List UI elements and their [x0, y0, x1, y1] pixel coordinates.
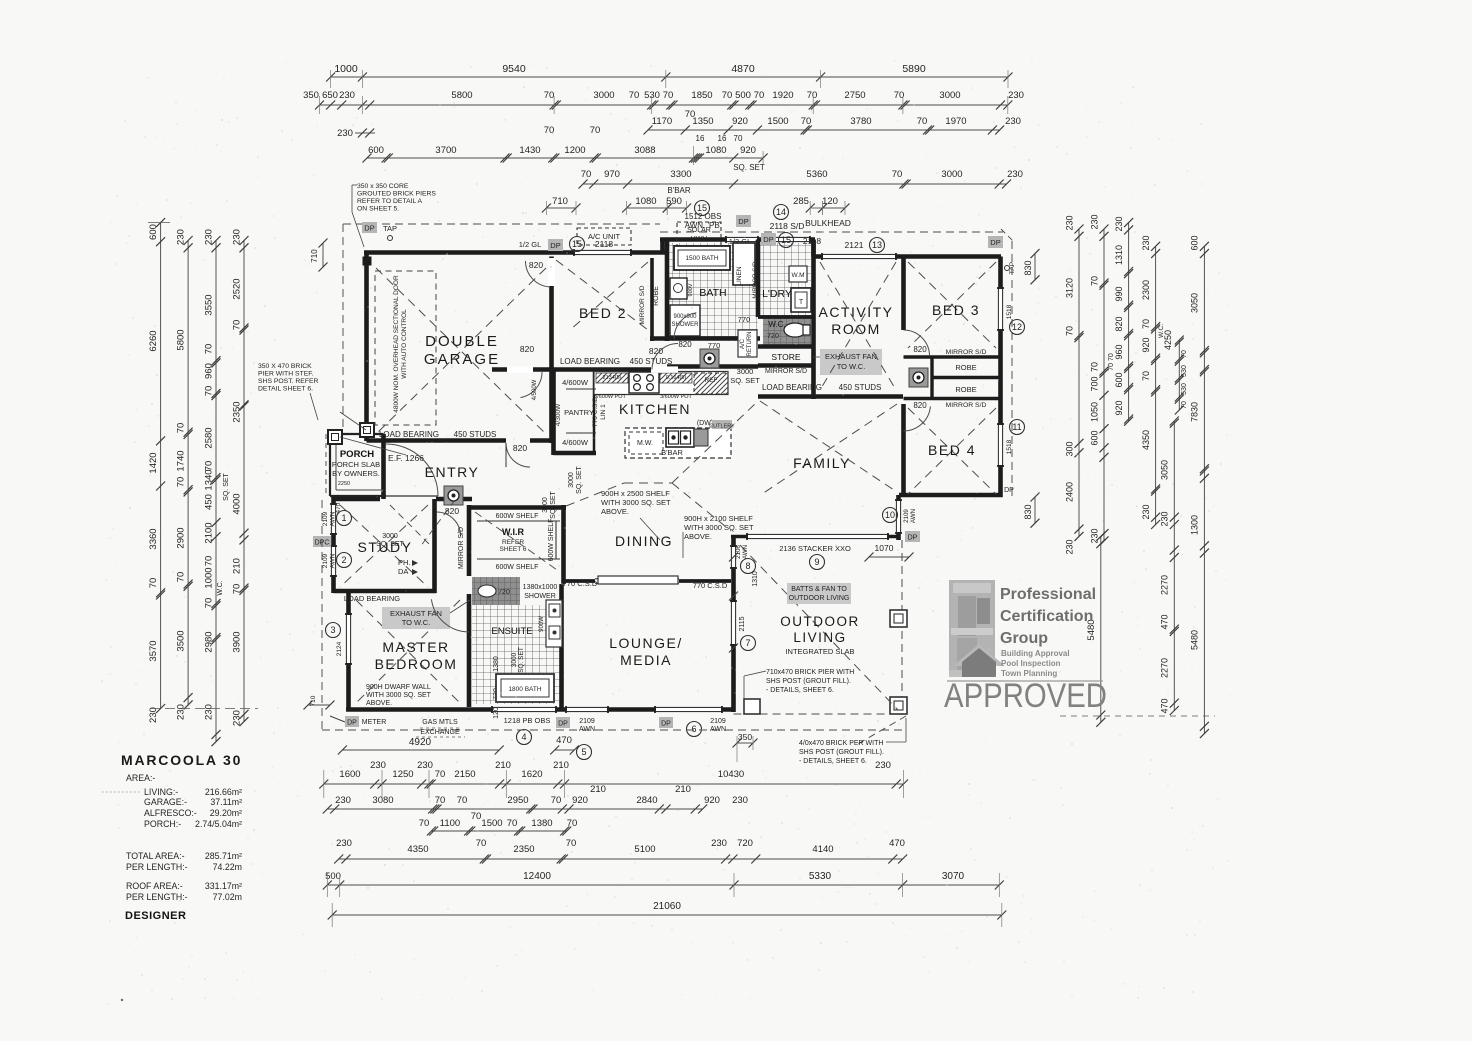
svg-text:230: 230 [204, 704, 215, 720]
svg-text:230: 230 [417, 760, 433, 771]
svg-text:230: 230 [1089, 528, 1099, 543]
wall: bottom exterior master-lounge [346, 707, 734, 712]
stray dot bottom left [121, 999, 123, 1001]
svg-text:SHEET 6: SHEET 6 [500, 546, 527, 553]
svg-text:70: 70 [754, 90, 765, 101]
svg-text:T: T [799, 299, 804, 306]
svg-text:2121: 2121 [845, 240, 864, 250]
wall: master bedroom left exterior [346, 591, 351, 710]
svg-text:230: 230 [1089, 214, 1099, 229]
svg-text:MIRROR S/D: MIRROR S/D [458, 527, 465, 569]
AC return box [738, 330, 757, 357]
svg-text:- DETAILS, SHEET 6.: - DETAILS, SHEET 6. [799, 758, 867, 765]
window family right 2109 [895, 500, 902, 533]
callout circle 5 bottom [577, 745, 592, 760]
svg-text:5480: 5480 [1190, 630, 1200, 650]
ensuite shower head [478, 585, 496, 597]
svg-text:70: 70 [1181, 401, 1188, 409]
svg-text:GROUTED BRICK PIERS: GROUTED BRICK PIERS [357, 191, 436, 198]
svg-text:830: 830 [1023, 504, 1033, 519]
svg-text:2270: 2270 [1160, 575, 1170, 595]
svg-text:230: 230 [875, 760, 891, 771]
svg-text:1512 OBS: 1512 OBS [685, 212, 722, 221]
svg-text:3000: 3000 [941, 169, 962, 180]
svg-text:1100: 1100 [440, 818, 460, 829]
svg-text:900H DWARF WALL: 900H DWARF WALL [366, 684, 431, 691]
svg-text:DETAIL SHEET 6.: DETAIL SHEET 6. [258, 386, 313, 393]
scan noise speckles [101, 60, 1230, 1005]
svg-text:1250: 1250 [392, 769, 413, 780]
svg-text:6: 6 [691, 724, 696, 734]
washing machine [789, 266, 807, 282]
right dim col 4b (530/530/70 cluster) [1178, 340, 1180, 410]
right dim col 3 (1310/990/820/960/920) [1128, 223, 1130, 422]
wall: top exterior garage-bed2 [364, 250, 667, 255]
svg-text:970: 970 [604, 169, 620, 180]
svg-text:230: 230 [148, 707, 159, 723]
svg-text:2115: 2115 [739, 616, 746, 631]
svg-text:DP: DP [908, 535, 918, 542]
right side bottom: 830 dim [1034, 497, 1036, 523]
svg-text:230: 230 [1141, 235, 1151, 250]
svg-text:4/0x470 BRICK PER WITH: 4/0x470 BRICK PER WITH [799, 740, 883, 747]
svg-text:1518: 1518 [1006, 439, 1013, 454]
svg-text:600: 600 [1089, 430, 1099, 445]
kitchen bench top [594, 372, 728, 395]
svg-text:W.M: W.M [792, 272, 805, 279]
svg-text:900H x 2100 SHELF: 900H x 2100 SHELF [684, 514, 753, 523]
svg-text:3550: 3550 [204, 294, 215, 315]
kitchen fridge space [694, 373, 728, 394]
svg-text:STORE: STORE [771, 352, 800, 362]
svg-text:230: 230 [232, 710, 243, 726]
island sink [666, 428, 694, 447]
svg-text:470: 470 [889, 838, 905, 849]
exhaust fan to wc master [382, 607, 450, 629]
bottom-left roof eave dashes [321, 500, 323, 730]
svg-text:BATH: BATH [699, 287, 726, 299]
dimension row top-2 [320, 104, 1008, 106]
svg-text:12: 12 [1012, 322, 1022, 332]
svg-text:710: 710 [310, 249, 319, 263]
bed2 roof dashes [556, 260, 648, 330]
svg-text:3780: 3780 [850, 116, 871, 127]
svg-text:ROBE: ROBE [653, 286, 660, 306]
bottom dim row C [327, 808, 702, 810]
wall: garage right / bed2 left [549, 257, 554, 444]
svg-text:450 STUDS: 450 STUDS [630, 357, 673, 366]
svg-text:210: 210 [590, 784, 606, 795]
dimension row top-5 [583, 183, 1007, 185]
svg-text:2840: 2840 [636, 795, 657, 806]
wall: entry-study return [436, 497, 472, 502]
svg-text:LIVING: LIVING [793, 630, 846, 645]
family roof dashes [760, 401, 897, 492]
svg-text:2900: 2900 [176, 527, 187, 548]
svg-text:SHOWER: SHOWER [524, 593, 556, 600]
svg-text:LOUNGE/: LOUNGE/ [609, 635, 683, 651]
svg-text:PORCH: PORCH [340, 449, 374, 460]
window study left 2109 upper [330, 504, 337, 534]
svg-text:2109: 2109 [322, 553, 329, 568]
svg-text:70: 70 [1141, 371, 1151, 381]
dimension row top-3 [648, 129, 1000, 131]
svg-text:3000: 3000 [542, 497, 549, 513]
svg-text:SQ. SET: SQ. SET [733, 163, 765, 172]
ensuite floor tiles [472, 605, 564, 704]
svg-text:230: 230 [1160, 511, 1170, 526]
roof eave dashes top [343, 223, 660, 225]
wall: wc bottom / store top [758, 344, 814, 349]
svg-text:1420: 1420 [148, 452, 159, 473]
window top activity 2121 [822, 253, 896, 260]
svg-text:230: 230 [732, 795, 748, 806]
svg-text:5100: 5100 [634, 844, 655, 855]
svg-text:70: 70 [1064, 326, 1074, 336]
svg-text:70: 70 [204, 344, 215, 355]
svg-text:W.I.R: W.I.R [502, 527, 524, 537]
entry door arc [386, 444, 438, 496]
master roof dashes [356, 600, 460, 703]
bed3 roof dashes [908, 262, 996, 348]
svg-text:2400: 2400 [1064, 482, 1074, 502]
svg-text:16: 16 [696, 134, 705, 143]
svg-text:710x470 BRICK PIER WITH: 710x470 BRICK PIER WITH [766, 669, 854, 676]
svg-text:2580: 2580 [204, 427, 215, 448]
wall: study bottom [334, 589, 437, 594]
svg-text:4/300W: 4/300W [555, 403, 562, 426]
svg-text:PANTRY: PANTRY [564, 408, 594, 417]
svg-text:DINING: DINING [615, 533, 673, 549]
svg-text:1218 PB OBS: 1218 PB OBS [504, 716, 551, 725]
ensuite shower dark tiles [472, 577, 520, 605]
roof eave dash right side [1011, 241, 1013, 497]
svg-text:1300: 1300 [1190, 515, 1200, 535]
outdoor living dashed slab outline [734, 713, 906, 715]
svg-text:AWN: AWN [710, 726, 726, 733]
wall: garage left exterior [364, 253, 369, 442]
svg-text:3000: 3000 [737, 367, 754, 376]
outdoor pier right top [890, 610, 907, 627]
svg-text:1500: 1500 [481, 818, 502, 829]
bottom dim row B [324, 783, 904, 785]
svg-text:3050: 3050 [1160, 460, 1170, 480]
svg-text:3: 3 [330, 625, 335, 635]
svg-text:3120: 3120 [1064, 278, 1074, 298]
svg-text:70: 70 [801, 116, 812, 127]
svg-text:1380: 1380 [493, 656, 500, 672]
svg-text:SHS POST (GROUT FILL).: SHS POST (GROUT FILL). [766, 678, 851, 685]
hall door 820 at kitchen wall [507, 366, 533, 372]
svg-text:29.20m²: 29.20m² [210, 808, 242, 818]
svg-text:WITH 3000 SQ. SET: WITH 3000 SQ. SET [366, 692, 432, 699]
svg-text:2109: 2109 [710, 718, 726, 725]
bottom dim 4920/470 row [342, 749, 499, 751]
svg-text:4000: 4000 [232, 493, 243, 514]
svg-text:E.F. 1266: E.F. 1266 [388, 453, 424, 463]
svg-text:210: 210 [495, 760, 511, 771]
bottom dim row E [339, 858, 903, 860]
svg-text:DP: DP [364, 224, 374, 233]
wall: bed3-4 robe top (mirror) [904, 355, 1001, 358]
svg-text:820: 820 [529, 260, 543, 270]
svg-text:10430: 10430 [718, 769, 744, 780]
svg-text:BULKHEAD: BULKHEAD [805, 218, 851, 228]
svg-text:230: 230 [336, 838, 352, 849]
svg-text:DESIGNER: DESIGNER [125, 910, 186, 922]
svg-text:3088: 3088 [634, 145, 655, 156]
solar HWU box top [677, 222, 721, 247]
svg-text:Building Approval: Building Approval [1001, 649, 1070, 658]
svg-text:5360: 5360 [806, 169, 827, 180]
svg-text:1600: 1600 [339, 769, 360, 780]
svg-text:700: 700 [1089, 376, 1099, 391]
kitchen roof dashes [566, 483, 624, 506]
svg-text:WITH 3000 SQ. SET: WITH 3000 SQ. SET [601, 498, 671, 507]
svg-text:920: 920 [1114, 400, 1124, 415]
svg-text:1/2 GL: 1/2 GL [519, 240, 542, 249]
wall: bed3 left [901, 257, 906, 331]
svg-text:5800: 5800 [176, 329, 187, 350]
left dim column 3 [215, 241, 217, 742]
svg-text:PER LENGTH:-: PER LENGTH:- [126, 862, 188, 872]
svg-text:DOUBLE: DOUBLE [425, 333, 499, 350]
wall: pantry left [551, 370, 556, 456]
window bottom lounge2 2109 [655, 706, 722, 713]
wall: top exterior activity-bed3 [812, 254, 1001, 259]
svg-text:PORCH:-: PORCH:- [144, 819, 181, 829]
svg-text:PIER WITH STEF.: PIER WITH STEF. [258, 371, 314, 378]
svg-text:600: 600 [148, 224, 159, 240]
svg-text:1000: 1000 [204, 567, 215, 588]
svg-text:70: 70 [544, 90, 555, 101]
svg-text:MIRROR S/D: MIRROR S/D [752, 261, 759, 299]
trough T [791, 288, 811, 312]
svg-text:1000: 1000 [334, 63, 358, 75]
svg-text:920: 920 [732, 116, 748, 127]
svg-text:830: 830 [1023, 260, 1033, 275]
svg-text:5330: 5330 [809, 871, 832, 882]
svg-text:BEDROOM: BEDROOM [375, 656, 458, 672]
linen closet [733, 243, 755, 285]
wc floor dark tiles [763, 317, 811, 345]
stamp building icon [949, 580, 1005, 713]
svg-text:SHOWER: SHOWER [672, 322, 700, 328]
svg-text:9540: 9540 [502, 63, 526, 75]
svg-text:SQ. SET: SQ. SET [576, 465, 583, 493]
svg-text:2106: 2106 [735, 545, 742, 559]
svg-text:TOTAL AREA:-: TOTAL AREA:- [126, 851, 185, 861]
svg-text:70: 70 [1089, 276, 1099, 286]
svg-text:900W: 900W [539, 616, 545, 632]
svg-text:OUTDOOR LIVING: OUTDOOR LIVING [789, 595, 850, 602]
callout circle 10 [883, 508, 898, 523]
svg-text:350 x 350 CORE: 350 x 350 CORE [357, 183, 409, 190]
svg-text:MEDIA: MEDIA [620, 652, 672, 668]
garage roof dash diagonal 1 [376, 268, 546, 434]
svg-text:920: 920 [1141, 337, 1151, 352]
svg-text:600: 600 [368, 145, 384, 156]
svg-text:DP: DP [1004, 487, 1014, 494]
wall: WIR left / hall [467, 505, 472, 576]
svg-text:ROOF AREA:-: ROOF AREA:- [126, 881, 183, 891]
porch outline [330, 433, 384, 435]
svg-text:3080: 3080 [372, 795, 393, 806]
study roof dashes [340, 505, 428, 587]
wall: kitchen-bed2 load bearing [492, 367, 667, 372]
bed4 roof dashes [908, 408, 996, 494]
svg-text:2118: 2118 [803, 236, 822, 246]
garage top door 820 arc [526, 261, 550, 287]
svg-text:230: 230 [232, 229, 243, 245]
wall: WIR right / lounge left upper [561, 505, 566, 584]
svg-text:DP: DP [550, 241, 560, 250]
svg-text:ALFRESCO:-: ALFRESCO:- [144, 808, 197, 818]
svg-text:70: 70 [567, 818, 578, 829]
svg-text:820: 820 [649, 346, 663, 356]
right dim col 5 (3050/7830/3050/1300/5480) [1203, 246, 1205, 733]
right dim col 4 (2300/920/4250) [1155, 246, 1157, 524]
garage corner pier bottom-left [363, 425, 372, 434]
svg-text:DA: DA [398, 567, 408, 576]
svg-text:70: 70 [1181, 350, 1188, 358]
svg-text:ABOVE.: ABOVE. [601, 507, 629, 516]
roof eave dash left side [342, 224, 344, 430]
svg-text:210: 210 [232, 558, 243, 574]
svg-text:70: 70 [204, 556, 215, 567]
svg-text:4800W NOM. OVERHEAD SECTIONAL: 4800W NOM. OVERHEAD SECTIONAL DOOR [393, 275, 400, 413]
bottom dim row F [327, 884, 999, 886]
svg-text:1518: 1518 [1006, 304, 1013, 319]
svg-text:0.164(5): 0.164(5) [666, 375, 687, 381]
opening band dining-lounge [595, 578, 679, 584]
master window circled 3 [326, 623, 341, 638]
svg-text:KITCHEN: KITCHEN [619, 401, 691, 417]
svg-text:450 STUDS: 450 STUDS [454, 430, 497, 439]
svg-text:4/500W: 4/500W [532, 379, 538, 400]
svg-text:BED 2: BED 2 [579, 305, 627, 321]
svg-text:331.17m²: 331.17m² [205, 881, 242, 891]
wall: WIR top [469, 505, 566, 510]
svg-text:LOAD BEARING: LOAD BEARING [379, 430, 439, 439]
svg-text:5800: 5800 [451, 90, 472, 101]
svg-text:OUTDOOR: OUTDOOR [780, 614, 860, 629]
svg-text:4920: 4920 [409, 737, 432, 748]
svg-text:LINEN: LINEN [736, 266, 743, 285]
svg-text:3/600W POT: 3/600W POT [660, 394, 692, 400]
svg-text:820: 820 [913, 401, 927, 410]
window study left 2109 lower [330, 546, 337, 576]
svg-text:ACTIVITY: ACTIVITY [818, 304, 893, 320]
window bed3 right 1518 [997, 288, 1004, 330]
svg-text:70: 70 [232, 584, 243, 595]
svg-text:990: 990 [1114, 286, 1124, 301]
svg-text:70: 70 [685, 109, 696, 120]
svg-text:1080: 1080 [635, 196, 656, 207]
svg-text:70: 70 [590, 125, 601, 136]
wall: bed4 bottom exterior [899, 493, 1003, 498]
svg-text:230: 230 [339, 90, 355, 101]
wall: bath-ldry divider [756, 240, 761, 318]
svg-text:70: 70 [917, 116, 928, 127]
svg-text:230: 230 [337, 128, 353, 139]
window 2118 top bed2 [574, 249, 631, 256]
svg-text:WITH 3000 SQ. SET: WITH 3000 SQ. SET [684, 523, 754, 532]
left eave 710 vertical dim [322, 243, 324, 267]
svg-text:70: 70 [176, 423, 187, 434]
svg-text:LIN 1: LIN 1 [600, 404, 607, 420]
svg-text:960: 960 [204, 363, 215, 379]
svg-text:230: 230 [1008, 90, 1024, 101]
svg-text:DP: DP [347, 720, 357, 727]
svg-text:1850: 1850 [691, 90, 712, 101]
svg-text:10: 10 [885, 510, 895, 520]
svg-text:1740: 1740 [176, 450, 187, 471]
svg-text:SHS POST. REFER: SHS POST. REFER [258, 378, 319, 385]
svg-text:600: 600 [1190, 235, 1200, 250]
svg-text:3000: 3000 [382, 533, 398, 540]
label 350 dim bottom [737, 742, 753, 744]
svg-text:1200: 1200 [564, 145, 585, 156]
svg-text:4350: 4350 [1141, 430, 1151, 450]
svg-text:ENTRY: ENTRY [425, 464, 480, 480]
svg-text:GARAGE: GARAGE [424, 351, 500, 368]
svg-text:AWN: AWN [910, 509, 917, 523]
svg-text:1920: 1920 [772, 90, 793, 101]
svg-text:3360: 3360 [148, 528, 159, 549]
svg-text:820: 820 [1114, 316, 1124, 331]
svg-text:70: 70 [722, 90, 733, 101]
svg-text:16: 16 [718, 134, 727, 143]
svg-text:7: 7 [745, 638, 750, 648]
svg-text:210: 210 [675, 784, 691, 795]
svg-text:SHS POST (GROUT FILL).: SHS POST (GROUT FILL). [799, 749, 884, 756]
svg-text:230: 230 [711, 838, 727, 849]
svg-text:70: 70 [734, 134, 743, 143]
svg-text:MIRROR S/D: MIRROR S/D [765, 368, 807, 375]
svg-text:LIVING:-: LIVING:- [144, 787, 178, 797]
svg-text:ROBE: ROBE [955, 363, 976, 372]
wall: garage bottom load bearing [367, 438, 507, 443]
svg-text:AWN: AWN [742, 545, 749, 559]
svg-text:3570: 3570 [148, 640, 159, 661]
callout circle 14 top [774, 205, 789, 220]
svg-text:SQ. SET: SQ. SET [730, 376, 760, 385]
svg-text:37.11m²: 37.11m² [210, 797, 242, 807]
svg-text:M.W.: M.W. [637, 440, 653, 447]
svg-text:3000: 3000 [939, 90, 960, 101]
svg-text:230: 230 [1141, 504, 1151, 519]
svg-text:MIRROR S/D: MIRROR S/D [639, 285, 646, 324]
right dim 2270/470 col [1173, 421, 1175, 711]
garage roof dash diagonal 2 [376, 268, 546, 434]
svg-text:5890: 5890 [902, 63, 926, 75]
svg-text:1350: 1350 [692, 116, 713, 127]
svg-text:820: 820 [513, 443, 527, 453]
svg-text:70: 70 [663, 90, 674, 101]
svg-text:70: 70 [1089, 362, 1099, 372]
label 1070 dim [869, 556, 909, 558]
svg-text:710: 710 [552, 196, 568, 207]
svg-text:DP: DP [763, 235, 773, 244]
svg-text:70: 70 [1141, 319, 1151, 329]
svg-text:600W SHELF: 600W SHELF [548, 519, 555, 562]
svg-text:450: 450 [204, 494, 215, 510]
stamp underline [947, 680, 1103, 682]
wall: bed2 right / bath left [665, 240, 670, 342]
master door arc [431, 599, 469, 632]
svg-text:3300: 3300 [670, 169, 691, 180]
